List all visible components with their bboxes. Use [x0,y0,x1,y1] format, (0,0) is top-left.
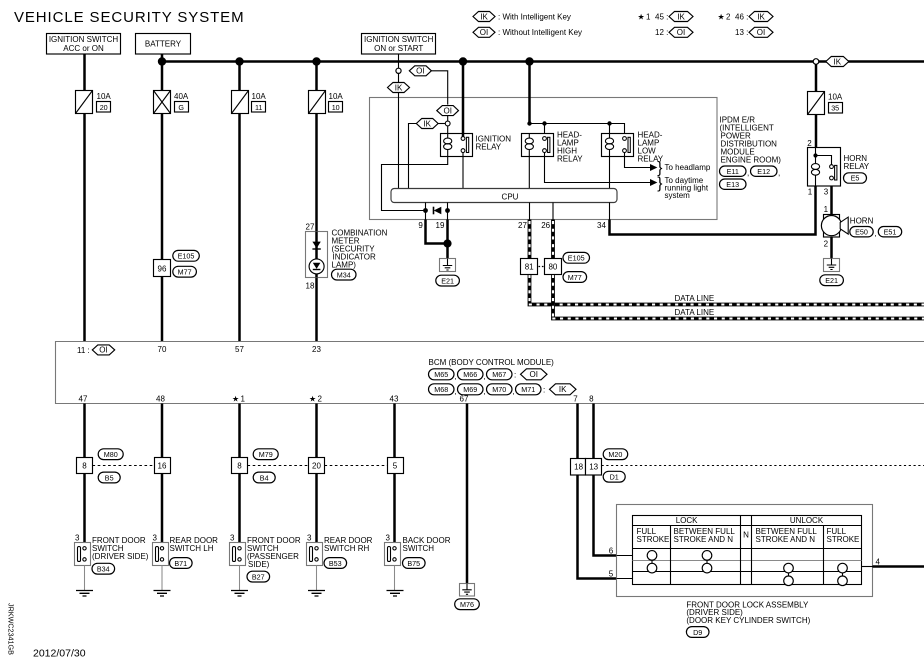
contact circles lock between full stroke and N [702,551,712,573]
svg-text:STROKE: STROKE [827,535,860,544]
svg-text:DATA LINE: DATA LINE [675,308,715,317]
svg-text:23: 23 [312,345,321,354]
svg-text:STROKE: STROKE [637,535,670,544]
wire BCM 47 to front door switch driver [83,404,86,549]
wire high relay coil to CPU [528,157,530,189]
svg-text:M79: M79 [259,450,273,459]
junction node ignition relay feed [459,57,467,65]
ground front door switch driver [76,566,93,597]
table header FULL STROKE right [827,527,860,544]
svg-text:SWITCH LH: SWITCH LH [170,544,214,553]
svg-text:: With Intelligent Key: : With Intelligent Key [498,12,571,21]
svg-text:B75: B75 [407,559,420,568]
svg-text:OI: OI [757,28,765,37]
node open circle on ON/START wire [396,68,401,73]
hexagon IK inside IPDM [416,119,438,129]
svg-text:19: 19 [436,221,445,230]
wire BCM 43 to back door switch [393,404,396,549]
connector oval D1 [603,471,625,482]
table header FULL STROKE left [637,527,670,544]
svg-text:★: ★ [309,394,316,403]
svg-text:B4: B4 [260,473,269,482]
svg-text:18: 18 [306,282,315,291]
svg-text:9: 9 [418,221,423,230]
wire low relay contact to headlamp output [625,153,651,168]
svg-text:45 :: 45 : [655,12,668,21]
svg-text:26: 26 [541,221,550,230]
svg-text:2: 2 [807,139,812,148]
wire pin 19 to ground junction [447,211,449,220]
legend IK symbol [473,12,571,22]
svg-text:IK: IK [395,83,403,92]
BCM connector ovals row 1 M65 M66 M67 OI [429,369,548,381]
back door switch B75 [385,534,451,569]
wire OI hexagon to junction circle [447,116,449,122]
wire horn relay pin 1 to IPDM pin 34 [609,203,611,220]
svg-text:2: 2 [824,239,829,248]
svg-text::: : [543,386,545,395]
connector 96 on battery column [154,260,171,277]
ground front door switch passenger [231,566,248,597]
wire bus to ignition relay contact [462,62,465,137]
junction node diode left [423,208,428,213]
wire bus to fuse 10 to meter to BCM pin 23 [315,62,318,343]
svg-text:2: 2 [318,394,323,403]
headlamp low relay U3 [602,131,664,164]
wire CPU to diode node 19 [447,203,449,211]
legend star1 45 IK [638,12,694,22]
connector 81 [521,259,538,275]
svg-text:★: ★ [718,12,725,21]
ignition relay U1 [441,134,512,157]
svg-text:8: 8 [589,394,594,403]
wire BCM 48 to rear door switch LH [161,404,164,549]
pin label star1 [232,394,246,403]
hexagon OI inside IPDM [437,106,459,116]
ground rear door switch LH [154,566,171,597]
connector 18 [571,459,586,476]
label front door lock assembly [686,601,810,625]
connector 13 [586,459,602,476]
power source box IGNITION SWITCH ACC or ON [47,34,121,55]
svg-text:47: 47 [79,394,88,403]
svg-text::: : [514,371,516,380]
svg-text:LAMP): LAMP) [332,261,357,270]
wire fuse 35 feed [815,64,818,91]
junction node headlamp relay feed [525,57,533,65]
svg-text:6: 6 [609,546,614,555]
BCM connector ovals row 2 M68 M69 M70 M71 IK [429,384,577,396]
connector oval M20 [603,449,628,460]
power source box IGNITION SWITCH ON or START [362,34,436,55]
svg-text:M67: M67 [492,370,506,379]
svg-text:M70: M70 [492,385,506,394]
svg-text:1: 1 [824,205,829,214]
svg-text:E105: E105 [568,254,585,263]
wire CPU pin 27 stub [529,203,531,220]
BCM body control module box [56,342,924,404]
hexagon IK on ON/START wire [388,83,410,93]
svg-text:,: , [875,229,877,238]
data line wire from pin 26 [551,220,924,319]
svg-text:,: , [483,387,485,396]
svg-text:IK: IK [480,12,488,21]
horn E50 E51 [821,215,901,239]
wire horn to ground E21 right [830,237,833,259]
svg-text:: Without Intelligent Key: : Without Intelligent Key [498,28,582,37]
ground symbol box E21 left [440,259,456,272]
legend star2 46 IK [718,12,774,22]
svg-text:4: 4 [876,558,881,567]
wire into table row 6 [617,555,634,557]
svg-text:}: } [657,175,662,192]
ground back door switch [387,566,404,597]
svg-text:96: 96 [158,264,167,273]
svg-text:48: 48 [156,394,165,403]
svg-text:16: 16 [158,461,167,470]
svg-text:B5: B5 [105,473,114,482]
svg-text:RELAY: RELAY [844,162,870,171]
node small circle above ignition relay coil [445,121,450,126]
svg-text:B53: B53 [329,559,342,568]
wire high relay contact to daytime output [545,153,651,183]
svg-text:E12: E12 [757,167,770,176]
connector 8 column star1 [232,458,248,474]
wire BCM 8 to key cylinder switch row 6 [594,404,617,556]
junction node fuse 10 [312,57,320,65]
wire relay feed rail [530,124,625,137]
svg-text:RELAY: RELAY [476,143,502,152]
IPDM label text E11 E12 E13 [720,116,782,190]
svg-text:E51: E51 [884,227,897,236]
svg-text:3: 3 [153,534,158,543]
svg-text:★: ★ [638,12,645,21]
wire ignition relay contact to CPU [462,153,464,189]
diode D1 inside IPDM [434,207,442,215]
wire BCM star2 to rear door switch RH [315,404,318,549]
svg-text:1: 1 [241,394,246,403]
wire OI branch into IPDM [431,71,447,105]
svg-text:M68: M68 [434,385,448,394]
wire junction to ground E21 left [446,244,449,259]
wire IK hexagon to CPU [409,124,417,189]
svg-text:20: 20 [312,461,321,470]
svg-text:CPU: CPU [502,192,519,201]
svg-text:10A: 10A [329,92,344,101]
svg-text:10A: 10A [252,92,267,101]
connector 20 column star2 [309,458,325,474]
wire junction circle to ignition relay coil [447,126,449,133]
wire battery bus [162,60,924,63]
contact circles unlock between full stroke and N [784,563,794,585]
wire battery column to BCM pin 70 [161,54,164,342]
svg-text:IK: IK [559,385,567,394]
svg-text:BATTERY: BATTERY [145,40,182,49]
svg-text:8: 8 [82,461,87,470]
wire ignition switch ON/START down to CPU pin [398,54,400,189]
svg-text:DATA LINE: DATA LINE [675,294,715,303]
svg-text:G: G [178,103,184,112]
svg-text:B34: B34 [97,565,110,574]
svg-text:HORN: HORN [850,217,874,226]
svg-text:ENGINE ROOM): ENGINE ROOM) [721,156,782,165]
svg-text:IGNITION SWITCH: IGNITION SWITCH [49,35,119,44]
svg-text:80: 80 [548,262,557,271]
svg-text:3: 3 [824,188,829,197]
svg-text:1: 1 [808,188,813,197]
svg-text:67: 67 [460,394,469,403]
fuse 10A 11 [232,91,267,114]
svg-text:STROKE AND N: STROKE AND N [756,535,816,544]
hexagon OI on branch [409,66,431,76]
combination meter security indicator lamp M34 [306,229,388,280]
junction node rail high coil [527,121,531,125]
wire pin 9 to ground junction [425,211,427,220]
svg-text:system: system [665,191,691,200]
connector E21 right oval [820,275,844,286]
key cylinder switch table grid [633,516,862,585]
svg-text:5: 5 [393,461,398,470]
front door lock assembly outer box [617,505,873,597]
connector oval E105 at 81 80 [563,252,590,263]
junction node battery bus [158,57,166,65]
svg-text:13: 13 [589,463,598,472]
svg-text:7: 7 [573,394,578,403]
svg-text:OI: OI [443,106,451,115]
svg-text:OI: OI [677,28,685,37]
headlamp high relay U2 [522,131,584,164]
horn relay U4 [808,148,870,187]
CPU box [391,189,617,203]
connector E21 left oval [436,275,460,286]
svg-text:,: , [483,372,485,381]
svg-text:10A: 10A [828,93,843,102]
svg-text:OI: OI [416,67,424,76]
ground symbol box M76 [460,584,475,597]
IPDM E/R module box [370,98,718,220]
wire into table row 5 [617,578,634,580]
svg-text:SIDE): SIDE) [248,560,270,569]
svg-text:11: 11 [255,103,262,112]
svg-text:,: , [778,169,780,178]
arrow to headlamp [650,164,657,171]
svg-text:D9: D9 [693,628,702,637]
svg-text:13 :: 13 : [735,28,748,37]
svg-text:BCM (BODY CONTROL MODULE): BCM (BODY CONTROL MODULE) [429,358,555,367]
dashed line from connector 13 to right edge [602,465,924,467]
svg-text:E105: E105 [178,252,195,261]
svg-text:ACC or ON: ACC or ON [63,44,104,53]
pin 4 wire to right edge [862,558,924,567]
svg-text:SWITCH RH: SWITCH RH [324,544,370,553]
ground rear door switch RH [308,566,325,597]
connector oval M77 at 81 80 [563,272,587,283]
svg-text:10A: 10A [97,92,112,101]
svg-text:46 :: 46 : [735,12,748,21]
wire BCM star1 to front door switch passenger [238,404,241,549]
svg-text:OI: OI [529,370,537,379]
svg-text:M77: M77 [178,268,192,277]
svg-text:E11: E11 [727,167,739,176]
junction node ground 9 19 [443,239,451,247]
svg-text:E21: E21 [441,276,454,285]
connector oval B5 [98,472,120,483]
hexagon IK on bus [826,57,849,67]
svg-text:2012/07/30: 2012/07/30 [33,648,86,660]
svg-text:8: 8 [237,461,242,470]
connector oval M80 [98,449,123,460]
svg-text:B71: B71 [174,559,187,568]
svg-text:,: , [454,387,456,396]
connector 5 column 43 [388,458,404,474]
svg-text:E50: E50 [855,227,868,236]
svg-text:M69: M69 [463,385,477,394]
svg-text:M71: M71 [521,385,535,394]
connector oval D9 [686,627,709,638]
connector oval E105 at 96 [173,250,200,261]
junction node fuse 11 [235,57,243,65]
dash between 81 and 80 [539,266,544,268]
svg-text:OI: OI [480,28,488,37]
svg-text:10: 10 [332,103,340,112]
svg-text:3: 3 [75,534,80,543]
svg-text:5: 5 [609,570,614,579]
legend OI symbol [473,27,582,37]
rear door switch RH B53 [307,534,373,569]
svg-text:81: 81 [525,262,534,271]
svg-text:70: 70 [158,345,167,354]
wire IK hexagon right to junction circle [438,123,445,125]
legend 12 OI [655,27,693,37]
svg-text:M65: M65 [434,370,448,379]
svg-text:11 :: 11 : [77,346,90,355]
junction node rail high contact [542,121,546,125]
wire horn relay pin 3 to horn [830,186,833,215]
pin label star2 [309,394,323,403]
svg-text:IGNITION SWITCH: IGNITION SWITCH [364,35,434,44]
svg-text:27: 27 [306,223,315,232]
ground symbol box E21 right [824,259,840,272]
wire BCM 67 to ground M76 [466,404,469,584]
dashed link 8 to 16 [93,465,155,467]
svg-text:1: 1 [646,12,651,21]
svg-text:,: , [747,169,749,178]
connector M76 oval [455,599,480,610]
legend 13 OI [735,27,773,37]
brace and text To daytime running light system [657,175,709,200]
wire CPU pin 26 stub [552,203,554,220]
svg-text:43: 43 [390,394,399,403]
connector 80 [545,259,562,275]
junction node rail low coil [607,121,611,125]
svg-text:}: } [657,160,662,177]
wire bus to headlamp relay rail [528,62,531,124]
svg-text:57: 57 [235,345,244,354]
svg-text:(DOOR KEY CYLINDER SWITCH): (DOOR KEY CYLINDER SWITCH) [686,616,810,625]
front door switch driver side B34 [75,534,149,575]
svg-text:M34: M34 [337,270,351,279]
svg-text:JRKWC2341GB: JRKWC2341GB [7,603,16,655]
wire bus to fuse 11 to BCM pin 57 [238,62,241,343]
wire ignition relay coil to diode loop [382,157,448,211]
svg-text:18: 18 [574,463,583,472]
svg-text:3: 3 [307,534,312,543]
svg-text:,: , [512,387,514,396]
table header BETWEEN FULL STROKE AND N left [674,527,736,544]
svg-text:IK: IK [677,12,685,21]
node open circle on bus at fuse 35 [813,59,819,65]
svg-text:M66: M66 [463,370,477,379]
fusible link 40A G [154,91,189,114]
svg-text:OI: OI [99,346,107,355]
svg-text:IK: IK [757,12,765,21]
svg-text:3: 3 [386,534,391,543]
svg-text:To headlamp: To headlamp [665,163,711,172]
power source box BATTERY [136,34,191,55]
svg-text:27: 27 [518,221,527,230]
svg-text:34: 34 [597,221,606,230]
svg-text:M20: M20 [608,450,622,459]
svg-text:3: 3 [230,534,235,543]
svg-text:LOCK: LOCK [676,516,698,525]
junction node diode right [445,208,450,213]
fuse 10A 20 [76,91,112,114]
connector 16 column 48 [155,458,171,474]
svg-text:M76: M76 [460,600,474,609]
svg-text:B27: B27 [252,572,265,581]
wire BCM 7 to key cylinder switch row 5 [578,404,617,579]
svg-text:M80: M80 [104,450,118,459]
svg-text:,: , [454,372,456,381]
contact circles lock full stroke [647,551,657,573]
dashed link 20 to 5 [325,465,388,467]
wire CPU to diode node 9 [425,203,427,211]
svg-text:★: ★ [232,394,239,403]
fuse 10A 35 [808,92,843,115]
svg-text:N: N [743,530,749,539]
contact circles unlock full stroke [838,563,848,585]
svg-text:UNLOCK: UNLOCK [790,516,824,525]
svg-text:IK: IK [834,57,842,66]
svg-text:SWITCH: SWITCH [403,544,435,553]
connector 8 column 47 [77,458,93,474]
svg-text:ON or START: ON or START [374,44,423,53]
connector oval M77 at 96 [173,266,197,277]
table header BETWEEN FULL STROKE AND N right [756,527,818,544]
front door switch passenger side B27 [230,534,301,582]
wire ACC to fuse to BCM pin 11 [83,54,86,342]
fuse 10A 10 [309,91,344,114]
svg-text:STROKE AND N: STROKE AND N [674,535,734,544]
svg-text:D1: D1 [610,473,619,482]
brace and text To headlamp [657,160,711,177]
svg-text:20: 20 [100,103,108,112]
svg-text:12 :: 12 : [655,28,668,37]
rear door switch LH B71 [153,534,219,569]
svg-text:RELAY: RELAY [557,155,583,164]
svg-text:2: 2 [726,12,731,21]
dashed link 8 to 20 [248,465,309,467]
svg-text:IK: IK [423,119,431,128]
svg-text:M77: M77 [568,273,582,282]
arrow to daytime running light [650,179,657,186]
svg-text:E13: E13 [726,180,739,189]
wire low relay coil to CPU [609,157,611,189]
pin label 11 with OI hexagon [77,345,115,355]
svg-text:VEHICLE SECURITY SYSTEM: VEHICLE SECURITY SYSTEM [14,9,244,26]
svg-text:35: 35 [831,103,839,112]
wire fuse 35 to horn relay pin 2 [815,115,818,148]
